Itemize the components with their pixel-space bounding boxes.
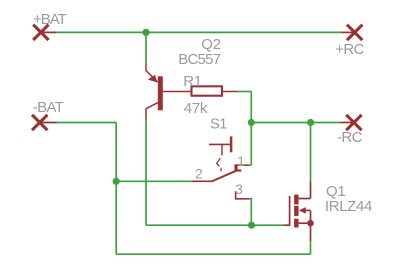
svg-text:R1: R1 [183,73,202,90]
source junction dot [307,220,314,227]
source down [310,223,312,241]
collector pin [146,103,158,109]
drain pin [299,198,311,200]
wire collector down [145,121,147,225]
svg-text:3: 3 [235,182,243,197]
base bar [158,76,163,110]
contact 1 [235,165,248,171]
base pin [163,91,191,93]
wire contact3 drop [249,199,251,225]
wire node drop from R1 [250,92,252,166]
resistor R1 [192,86,223,95]
source pin [299,222,311,224]
lever foot [237,169,242,171]
junction pin2 [113,178,120,185]
wire collector to gate node [146,224,252,226]
pin cross -RC [341,116,360,129]
wire source to rail [310,241,312,254]
svg-text:+RC: +RC [335,41,364,58]
wire -RC horizontal [251,122,341,124]
wire R1 right [223,91,238,93]
svg-text:IRLZ44: IRLZ44 [325,198,372,215]
pin cross -BAT [33,116,56,129]
pin2 stub [192,180,213,182]
wire drain up [310,123,312,182]
spring [217,158,221,166]
body arrow [299,207,306,214]
wire pin2 [116,180,191,182]
wire contact1 elbow [248,164,251,166]
svg-text:1: 1 [237,154,245,169]
wire +BAT rail to +RC [56,31,342,33]
lever [212,171,237,182]
actuator T bar [230,136,233,152]
transistor Q2 [146,62,191,121]
gate pin [284,224,290,226]
svg-text:-BAT: -BAT [33,99,64,116]
wire gate node to mosfet [252,224,284,226]
pin cross +BAT [34,26,55,39]
bottom rail [116,253,310,255]
wire emitter drop [145,32,147,62]
svg-text:BC557: BC557 [178,51,220,68]
pin cross +RC [342,26,362,39]
channel bar bottom [294,219,299,228]
junction -RC left [248,119,255,126]
svg-text:47k: 47k [184,100,208,117]
junction gate node [248,222,255,229]
contact 3 [236,191,249,199]
emitter pin [145,62,147,71]
svg-text:S1: S1 [210,116,227,133]
wire -BAT horizontal [57,122,117,124]
junction drain [307,119,314,126]
actuator T horizontal [209,143,231,145]
svg-text:2: 2 [195,166,203,181]
channel bar top [294,195,299,205]
svg-text:-RC: -RC [337,129,363,146]
emitter arrow [148,75,158,83]
svg-text:+BAT: +BAT [33,11,67,28]
actuator stem [221,144,223,155]
junction node emitter top [142,29,149,36]
lever tip tick [236,165,238,171]
channel bar middle [294,206,299,216]
mosfet Q1 [284,182,314,242]
switch S1 [192,136,250,198]
wire -BAT vertical [115,123,117,255]
